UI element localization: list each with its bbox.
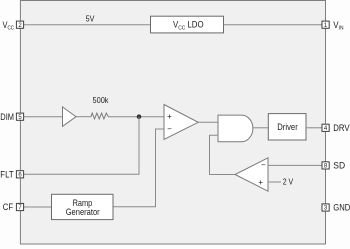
pin 4 DRV <box>322 123 350 133</box>
wire SD pin to comparator U2 minus input <box>268 164 322 166</box>
svg-text:VIN: VIN <box>333 20 343 32</box>
wire driver to DRV pin <box>306 127 322 129</box>
pin 6 FLT <box>0 169 23 179</box>
AND gate <box>218 115 253 142</box>
wire comparator U1 output to AND gate <box>198 121 218 123</box>
pin 1 VIN <box>322 20 344 32</box>
wire FLT pin up to node <box>24 117 139 175</box>
svg-text:GND: GND <box>333 203 350 213</box>
svg-text:5V: 5V <box>86 13 95 23</box>
svg-text:FLT: FLT <box>0 169 14 179</box>
comparator U2 <box>235 158 268 191</box>
svg-text:SD: SD <box>333 161 345 171</box>
comparator U1 <box>164 105 198 140</box>
wire buffer to resistor <box>76 116 91 118</box>
junction node dot <box>137 114 142 119</box>
svg-text:Generator: Generator <box>66 207 100 217</box>
regulator block VCC LDO <box>151 16 224 33</box>
ramp generator block <box>52 194 114 219</box>
wire comparator U2 output to AND gate lower input <box>210 135 236 174</box>
wire resistor to comparator plus input <box>108 116 164 118</box>
reference stub 2V <box>268 177 293 187</box>
wire AND gate output to driver <box>253 127 269 129</box>
wire CF pin to ramp generator <box>24 206 52 208</box>
pin 7 CF <box>3 202 24 212</box>
pin 5 DIM <box>0 112 23 122</box>
driver block <box>268 114 306 140</box>
svg-text:VCC: VCC <box>3 20 15 32</box>
svg-text:DIM: DIM <box>0 112 14 122</box>
svg-text:500k: 500k <box>93 95 110 105</box>
wire ramp generator to comparator minus input <box>113 129 164 207</box>
svg-text:2 V: 2 V <box>283 177 294 187</box>
svg-text:+: + <box>258 178 263 187</box>
buffer amplifier <box>63 107 77 127</box>
svg-text:CF: CF <box>3 202 14 212</box>
svg-text:DRV: DRV <box>333 123 349 133</box>
pin 8 SD <box>322 161 346 171</box>
svg-text:+: + <box>167 112 172 121</box>
wire DIM pin to buffer <box>24 116 63 118</box>
wire LDO to VIN pin <box>224 24 323 26</box>
svg-text:−: − <box>261 161 266 170</box>
pin 3 GND <box>322 203 350 213</box>
resistor 500k <box>91 95 109 119</box>
pin 2 VCC <box>3 20 24 32</box>
svg-text:−: − <box>167 125 172 134</box>
wire VCC pin to LDO <box>24 24 151 26</box>
svg-text:Driver: Driver <box>277 122 298 132</box>
